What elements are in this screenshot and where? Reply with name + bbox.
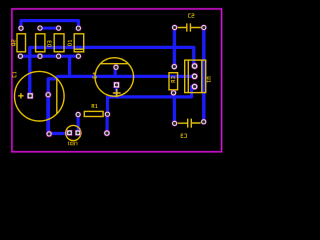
pad row top A-D: [18, 25, 24, 31]
wire R3 bottom pad stub: [172, 93, 175, 97]
capacitor C1 polarity chord: [56, 79, 58, 114]
resistor body 2: [36, 34, 45, 52]
wire via to LED1 left pad: [49, 132, 69, 135]
label D3: [48, 41, 51, 46]
connector U1 pin pads: [191, 63, 198, 70]
wire R1 left pad down to LED1 right pad: [76, 115, 79, 133]
diode D3 body: [54, 34, 64, 52]
label C4: [93, 73, 96, 78]
capacitor C4 plus sign: [113, 89, 121, 97]
capacitor C4 chord: [101, 63, 128, 65]
connector U1 inner line left: [187, 60, 189, 93]
diode D1 body: [74, 34, 84, 52]
wire C1 square pad riser, long horizontal, drop to connector pin1: [30, 47, 194, 95]
label U1: [207, 77, 210, 82]
wire riser from bottom pad row to mid horizontal: [68, 56, 71, 76]
wire R1 right pad down to via: [105, 114, 108, 133]
LED1 outline circle: [66, 125, 81, 140]
connector U1 inner line right: [201, 60, 203, 93]
wire pad B top to pad C top: [40, 27, 59, 30]
pad row bottom A-D: [17, 53, 23, 59]
label R1: [92, 104, 97, 107]
reference designator labels: [12, 14, 211, 145]
capacitor C4 square pad: [113, 82, 119, 88]
wire C1 round pad to mid horizontal to connector pin2: [48, 76, 194, 94]
wire C1 round pad down to via: [46, 95, 50, 134]
capacitor C3 pads: [172, 120, 178, 126]
label LED1: [68, 142, 77, 145]
label R3: [171, 77, 174, 82]
wire C3 left pad riser: [173, 97, 176, 124]
resistor R3 pads: [171, 64, 177, 70]
capacitor C1 plus sign: [18, 93, 23, 98]
label D1: [68, 40, 71, 45]
LED1 square pads: [67, 130, 73, 136]
via pad below C1: [46, 131, 53, 138]
pads: [17, 25, 206, 138]
wire C2 right pad down to C3 right pad: [202, 28, 205, 122]
wire R1 right pad up, y97 horizontal, up to connector pin3: [108, 87, 192, 115]
label C3: [181, 134, 186, 137]
board outline glow: [12, 9, 222, 152]
board outline: [12, 9, 222, 152]
capacitor C3 symbol: [178, 119, 201, 128]
capacitor C1 round pad: [45, 91, 52, 98]
wire C2 left pad down to R3 top pad: [173, 28, 176, 67]
capacitor C2 symbol: [178, 23, 201, 31]
connector U1 outline: [185, 60, 206, 93]
via pad below R1: [104, 130, 111, 137]
capacitor C1 outline circle: [15, 71, 65, 121]
label Q2: [12, 40, 16, 45]
capacitor C4 top round pad: [113, 64, 119, 70]
wire C4 top pad stub: [114, 67, 117, 76]
diode D1 band: [74, 48, 84, 50]
resistor R3 body: [169, 73, 178, 90]
silkscreen: [15, 23, 206, 140]
capacitor C2 pads: [172, 25, 178, 31]
resistor R1 pads: [75, 112, 81, 118]
resistor Q2 body: [17, 34, 26, 52]
wire C4 square pad stub: [115, 85, 118, 97]
resistor R1 body: [84, 111, 103, 116]
wire top loop pad A to pad D: [21, 21, 78, 29]
wire bottom pads row: [20, 55, 78, 58]
label C2: [189, 14, 194, 17]
capacitor C4 outline circle: [95, 58, 134, 97]
label C1: [13, 72, 16, 77]
capacitor C1 square pad (+): [27, 93, 33, 99]
